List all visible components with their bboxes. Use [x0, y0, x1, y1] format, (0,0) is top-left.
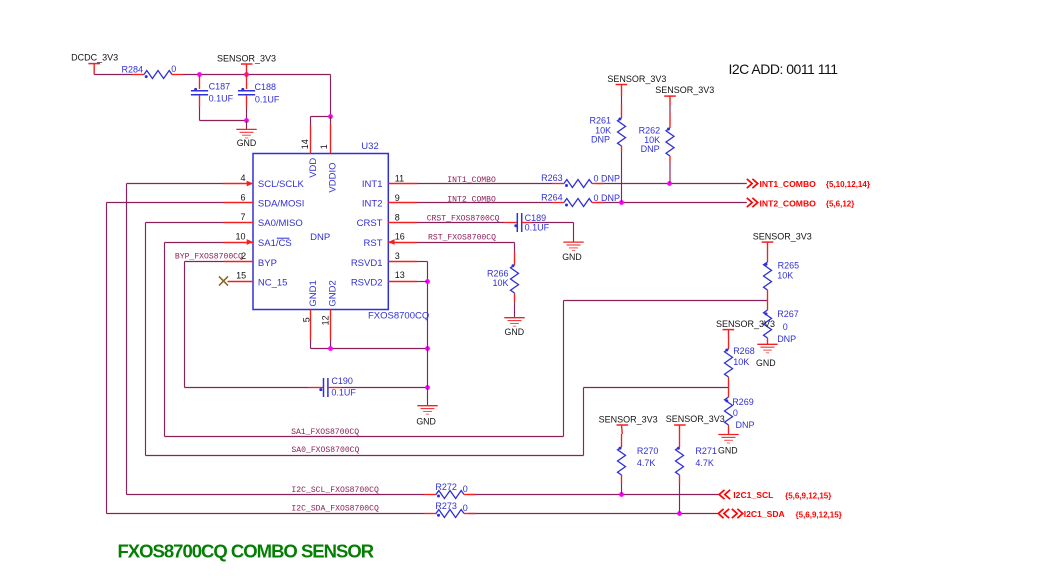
svg-text:5: 5	[301, 317, 311, 322]
svg-text:GND: GND	[416, 417, 436, 427]
svg-text:0: 0	[783, 322, 788, 332]
svg-text:0: 0	[171, 64, 176, 74]
svg-text:SENSOR_3V3: SENSOR_3V3	[655, 85, 714, 95]
svg-text:R266: R266	[487, 268, 509, 278]
svg-text:16: 16	[395, 231, 405, 241]
port INT2_COMBO	[747, 198, 855, 209]
svg-text:GND1: GND1	[308, 280, 319, 306]
svg-text:BYP_FXOS8700CQ: BYP_FXOS8700CQ	[175, 253, 243, 262]
svg-text:13: 13	[395, 270, 405, 280]
wire R262 to INT1	[669, 162, 671, 184]
pin 11 INT1	[362, 173, 417, 189]
pin 15 NC_15	[228, 271, 288, 289]
svg-text:4.7K: 4.7K	[695, 458, 714, 468]
wire DCDC_3V3 to R284	[94, 74, 132, 76]
power symbol DCDC_3V3	[71, 52, 118, 74]
svg-text:DNP: DNP	[591, 135, 610, 145]
wire RST net	[417, 242, 515, 244]
no-connect X on pin 15	[219, 276, 228, 285]
svg-text:SCL/SCLK: SCL/SCLK	[258, 179, 305, 190]
svg-text:15: 15	[236, 271, 246, 281]
wire C190 to ground junction	[341, 387, 428, 389]
resistor R263 0 DNP	[541, 173, 620, 187]
junction R261 on INT2	[619, 200, 624, 205]
svg-text:GND: GND	[756, 358, 776, 368]
resistor R273 0	[424, 501, 476, 517]
svg-text:0: 0	[463, 503, 468, 513]
svg-text:{5,6,9,12,15}: {5,6,9,12,15}	[796, 511, 842, 520]
svg-text:R270: R270	[637, 446, 659, 456]
svg-text:SA1_FXOS8700CQ: SA1_FXOS8700CQ	[291, 428, 359, 437]
svg-text:R268: R268	[733, 346, 755, 356]
svg-text:R265: R265	[778, 260, 800, 270]
wire SA1 net vertical	[165, 242, 224, 244]
junction at C187 top	[197, 72, 202, 77]
pin 1 VDDIO	[319, 124, 339, 193]
wire R261 to INT2	[621, 152, 623, 203]
svg-text:DNP: DNP	[736, 420, 755, 430]
svg-text:INT2_COMBO: INT2_COMBO	[447, 196, 496, 205]
pin 7 SA0/MISO	[223, 212, 303, 229]
resistor R265 10K	[764, 252, 800, 301]
pin 10 SA1/CS	[223, 232, 292, 249]
svg-text:R263: R263	[541, 173, 563, 183]
svg-text:GND: GND	[562, 252, 582, 262]
svg-text:{5,6,12}: {5,6,12}	[826, 200, 854, 209]
ground under R266	[504, 318, 524, 337]
svg-text:R267: R267	[777, 309, 799, 319]
svg-text:DCDC_3V3: DCDC_3V3	[71, 52, 118, 62]
ground under C190 junction	[416, 406, 437, 427]
svg-text:GND: GND	[718, 446, 738, 456]
pin 13 RSVD2	[351, 270, 417, 289]
resistor R270 4.7K	[618, 434, 659, 495]
wire SA1 net	[165, 436, 564, 438]
svg-text:8: 8	[395, 212, 400, 222]
svg-text:10K: 10K	[777, 271, 793, 281]
port I2C1_SDA	[718, 509, 841, 520]
svg-text:RST_FXOS8700CQ: RST_FXOS8700CQ	[428, 234, 496, 243]
pin 6 SDA/MOSI	[223, 193, 304, 210]
svg-text:SA0_FXOS8700CQ: SA0_FXOS8700CQ	[291, 446, 359, 455]
svg-text:R272: R272	[435, 482, 457, 492]
pin 5 GND1	[301, 280, 319, 339]
svg-text:INT2_COMBO: INT2_COMBO	[760, 198, 817, 208]
pin 12 GND2	[320, 280, 338, 339]
svg-text:0: 0	[463, 484, 468, 494]
power symbol SENSOR_3V3 at R271	[666, 414, 725, 434]
power symbol SENSOR_3V3 at R270	[599, 415, 658, 434]
junction at C188 / SENSOR_3V3 top	[244, 72, 249, 77]
ground under R267	[756, 344, 778, 368]
svg-text:C190: C190	[331, 376, 353, 386]
svg-text:SENSOR_3V3: SENSOR_3V3	[666, 414, 725, 424]
wire BYP to C190	[185, 387, 310, 389]
svg-text:SENSOR_3V3: SENSOR_3V3	[599, 415, 658, 425]
node SENSOR_3V3 net	[310, 117, 312, 126]
svg-text:C189: C189	[525, 213, 547, 223]
svg-text:SENSOR_3V3: SENSOR_3V3	[716, 319, 775, 329]
svg-text:R264: R264	[541, 193, 563, 203]
svg-text:SENSOR_3V3: SENSOR_3V3	[607, 74, 666, 84]
svg-text:C188: C188	[255, 82, 277, 92]
svg-text:10K: 10K	[733, 357, 749, 367]
ground under C189	[562, 242, 583, 262]
svg-text:0.1UF: 0.1UF	[525, 223, 550, 233]
capacitor C187 0.1UF	[191, 75, 234, 121]
pin 2 BYP	[224, 251, 277, 269]
svg-text:U32: U32	[361, 141, 378, 152]
resistor R264 0 DNP	[541, 193, 620, 207]
svg-text:4: 4	[240, 173, 245, 183]
junction at C188 bottom	[244, 118, 249, 123]
svg-text:I2C_SCL_FXOS8700CQ: I2C_SCL_FXOS8700CQ	[291, 486, 379, 495]
svg-text:VDD: VDD	[308, 158, 319, 178]
svg-text:GND: GND	[505, 327, 525, 337]
wire SA0 net	[146, 455, 584, 457]
capacitor C189 0.1UF	[505, 213, 550, 233]
capacitor C190 0.1UF	[310, 376, 357, 398]
pin 8 CRST	[357, 212, 417, 229]
junction VDD/VDDIO split	[328, 114, 333, 119]
svg-text:14: 14	[300, 139, 310, 149]
svg-text:3: 3	[395, 251, 400, 261]
svg-text:R261: R261	[589, 115, 611, 125]
resistor R266 10K	[487, 251, 519, 302]
svg-text:R273: R273	[435, 501, 457, 511]
svg-text:NC_15: NC_15	[258, 278, 288, 289]
svg-text:DNP: DNP	[310, 232, 330, 243]
svg-text:SA1/CS: SA1/CS	[258, 238, 292, 249]
wire R266 to ground	[514, 302, 516, 317]
svg-text:I2C1_SDA: I2C1_SDA	[744, 509, 785, 519]
svg-text:SDA/MOSI: SDA/MOSI	[258, 198, 304, 209]
wire RSVD/ground vertical	[427, 262, 429, 406]
junction R271 on SDA	[677, 511, 682, 516]
wire SDA net vertical	[107, 202, 224, 204]
svg-text:7: 7	[240, 212, 245, 222]
svg-text:FXOS8700CQ: FXOS8700CQ	[368, 311, 429, 322]
svg-text:0.1UF: 0.1UF	[255, 94, 280, 104]
op-amp U32 FXOS8700CQ body	[253, 141, 429, 321]
svg-text:VDDIO: VDDIO	[328, 163, 339, 193]
pin 9 INT2	[362, 193, 417, 209]
svg-text:I2C ADD: 0011 111: I2C ADD: 0011 111	[729, 61, 839, 77]
svg-text:R284: R284	[121, 64, 143, 74]
svg-text:R271: R271	[695, 446, 717, 456]
junction R262 on INT1	[667, 181, 672, 186]
capacitor C188 0.1UF	[238, 75, 280, 121]
svg-text:11: 11	[395, 173, 404, 183]
resistor R271 4.7K	[676, 434, 717, 514]
svg-text:{5,10,12,14}: {5,10,12,14}	[826, 180, 870, 189]
resistor R269 0 DNP	[725, 388, 755, 435]
svg-text:I2C1_SCL: I2C1_SCL	[733, 490, 773, 500]
wire BYP net vertical	[185, 261, 225, 263]
wire C187 bottom to C188 bottom	[200, 120, 247, 122]
svg-text:0.1UF: 0.1UF	[209, 93, 234, 103]
svg-text:INT2: INT2	[362, 198, 383, 209]
wire INT1 net	[417, 183, 552, 185]
svg-text:0 DNP: 0 DNP	[594, 173, 621, 183]
svg-text:I2C_SDA_FXOS8700CQ: I2C_SDA_FXOS8700CQ	[291, 505, 379, 514]
svg-text:DNP: DNP	[641, 144, 660, 154]
wire RSVD1 to vertical	[417, 261, 428, 263]
junction RSVD drop on rail	[425, 346, 430, 351]
resistor R284 0	[121, 64, 183, 79]
svg-text:R269: R269	[732, 397, 754, 407]
power symbol SENSOR_3V3 at R268	[716, 319, 775, 338]
wire CRST net	[417, 222, 505, 224]
svg-text:9: 9	[395, 193, 400, 203]
resistor R261 10K DNP	[589, 96, 625, 152]
port I2C1_SCL	[719, 490, 831, 500]
svg-text:DNP: DNP	[777, 334, 796, 344]
svg-text:10: 10	[235, 232, 245, 242]
pin 3 RSVD1	[351, 251, 417, 269]
resistor R268 10K	[725, 338, 755, 388]
junction GND2 on rail	[328, 346, 333, 351]
junction RSVD1/RSVD2	[425, 279, 430, 284]
resistor R272 0	[424, 482, 476, 499]
power symbol SENSOR_3V3 top	[217, 54, 276, 75]
svg-text:CRST_FXOS8700CQ: CRST_FXOS8700CQ	[427, 215, 500, 224]
ground under R269	[718, 435, 739, 456]
svg-text:INT1_COMBO: INT1_COMBO	[760, 179, 817, 189]
wire SENSOR_3V3 rail down to VDD/VDDIO	[330, 75, 332, 117]
svg-text:4.7K: 4.7K	[637, 458, 656, 468]
wire C189 to ground	[532, 222, 574, 224]
svg-text:10K: 10K	[492, 278, 508, 288]
port INT1_COMBO	[747, 179, 870, 189]
power symbol SENSOR_3V3 at R265	[753, 231, 812, 252]
wire INT2 net	[417, 202, 552, 204]
svg-text:0 DNP: 0 DNP	[594, 193, 621, 203]
wire I2C_SDA net	[107, 513, 425, 515]
svg-text:GND2: GND2	[328, 280, 339, 306]
resistor R267 0 DNP	[764, 301, 799, 345]
svg-text:FXOS8700CQ COMBO SENSOR: FXOS8700CQ COMBO SENSOR	[118, 541, 374, 562]
svg-text:SA0/MISO: SA0/MISO	[258, 218, 303, 229]
svg-text:RST: RST	[364, 238, 383, 249]
wire I2C_SCL net	[127, 494, 425, 496]
svg-text:GND: GND	[237, 138, 257, 148]
wire SCL net vertical	[127, 183, 224, 185]
svg-text:C187: C187	[209, 82, 231, 92]
resistor R262 10K DNP	[639, 106, 674, 162]
wire GND1/GND2 to ground rail	[310, 340, 312, 349]
svg-text:CRST: CRST	[357, 218, 383, 229]
svg-text:SENSOR_3V3: SENSOR_3V3	[217, 54, 276, 64]
svg-text:{5,6,9,12,15}: {5,6,9,12,15}	[785, 491, 831, 500]
junction C190 right	[425, 385, 430, 390]
power symbol SENSOR_3V3 at R261	[607, 74, 666, 96]
svg-text:BYP: BYP	[258, 258, 277, 269]
ground under C188	[236, 121, 256, 149]
power symbol SENSOR_3V3 at R262	[655, 85, 714, 106]
svg-text:0.1UF: 0.1UF	[331, 388, 356, 398]
svg-text:RSVD1: RSVD1	[351, 258, 383, 269]
junction R270 on SCL	[619, 492, 624, 497]
wire SA0 net vertical	[146, 222, 224, 224]
svg-text:0: 0	[733, 408, 738, 418]
svg-text:SENSOR_3V3: SENSOR_3V3	[753, 231, 812, 241]
svg-text:6: 6	[240, 193, 245, 203]
svg-text:RSVD2: RSVD2	[351, 277, 383, 288]
pin 16 RST	[364, 231, 418, 249]
svg-text:INT1_COMBO: INT1_COMBO	[447, 176, 496, 185]
pin 14 VDD	[300, 126, 319, 178]
wire R284 to SENSOR_3V3 rail	[183, 74, 331, 76]
svg-text:INT1: INT1	[362, 179, 383, 190]
pin 4 SCL/SCLK	[223, 173, 305, 190]
svg-text:12: 12	[320, 315, 330, 325]
svg-text:1: 1	[319, 144, 329, 149]
